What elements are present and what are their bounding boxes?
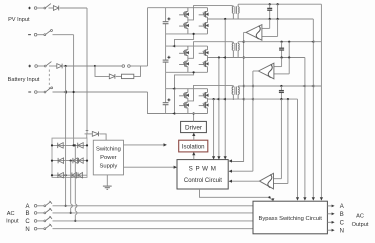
junction battery- / PV- bus xyxy=(73,91,75,93)
junction cap S3 top xyxy=(280,85,282,87)
arrow x cell3 bottom rail xyxy=(241,98,244,101)
sense lead cap2 to comparator xyxy=(281,58,283,67)
cap S3 lead xyxy=(280,86,282,90)
svg-text:A: A xyxy=(25,204,29,210)
junction battery+ / matrix bus xyxy=(65,65,67,67)
wire battery+ row xyxy=(63,65,95,67)
junction cap S2 top xyxy=(281,41,283,43)
arrow into SPWM left xyxy=(174,166,177,169)
arrow drive into cell3 rail xyxy=(172,87,175,90)
arrow bus C into bypass xyxy=(303,197,306,200)
transistor Q3 (cell1 upper-right) xyxy=(199,14,204,16)
comparator U6 (output sense) xyxy=(260,173,274,189)
drive link cell2 xyxy=(175,72,194,88)
wire bus battery+ to phase A xyxy=(65,66,67,206)
wire AC row B xyxy=(53,212,254,214)
transistor Q12 (cell3 lower-right) xyxy=(199,105,204,107)
arrow cell3 top rail at bus2 xyxy=(303,85,306,88)
cell2 top rail xyxy=(166,45,208,47)
transformer T1 xyxy=(232,7,233,13)
precharge diode D3 xyxy=(109,74,115,79)
arrow output A xyxy=(332,205,335,208)
svg-text:N: N xyxy=(25,227,29,233)
transistor Q8 (cell2 lower-right) xyxy=(199,63,204,65)
junction bus C on row C xyxy=(74,220,76,222)
output line A xyxy=(327,205,333,207)
cell2 right leg source stub xyxy=(207,68,209,73)
matrix row 1 diode D5 xyxy=(58,143,64,148)
arrow into SPWM corner xyxy=(229,159,232,162)
svg-text:N: N xyxy=(340,228,344,234)
junction cap S1 top xyxy=(269,3,271,5)
arrow output C xyxy=(332,221,335,224)
switch AC N xyxy=(34,227,37,230)
cell2 left leg midpoint xyxy=(187,56,189,60)
wire PV+ to bus xyxy=(60,7,87,9)
matrix row 3 diode D10 xyxy=(58,173,64,178)
wire PV- row xyxy=(53,34,74,36)
arrow cell3 top rail at bus3 xyxy=(311,85,314,88)
wire battery- down to stack return xyxy=(148,92,166,114)
matrix row 2 diode D7 xyxy=(58,158,64,163)
rail sense vertical 1 xyxy=(277,4,279,19)
svg-text:Supply: Supply xyxy=(100,164,118,170)
wire SPS to isolation xyxy=(124,144,165,146)
sense lead cap3 to comparator xyxy=(280,99,282,179)
junction PV- bus at row1 xyxy=(73,144,75,146)
cell2 DC cap C2 lead xyxy=(165,46,167,60)
capacitor C6 (cell3 filter) xyxy=(279,90,284,92)
terminal PV- with switch S2 xyxy=(34,33,37,36)
wire SPWM to isolation xyxy=(193,153,195,160)
cell2 left leg source stub xyxy=(187,68,189,73)
arrow cell1 feedback into SPWM xyxy=(224,156,227,159)
arrow x cell2 top rail xyxy=(241,40,244,43)
cell3 left leg source stub xyxy=(187,109,189,114)
sense lead rail1 to comparator xyxy=(277,19,279,36)
matrix row 1 wire xyxy=(52,144,87,146)
svg-text:S P W M: S P W M xyxy=(189,166,217,173)
arrow cell2 top rail end xyxy=(311,40,314,43)
capacitor C2 xyxy=(163,59,169,61)
capacitor C4 (cell1 filter) xyxy=(267,7,272,9)
comparator1 output vertical xyxy=(243,32,245,162)
cell3 bottom line xyxy=(208,98,298,100)
junction rail node3 xyxy=(287,98,289,100)
svg-text:C: C xyxy=(340,220,345,226)
cell1 left leg source stub xyxy=(187,29,189,34)
arrow output B xyxy=(332,212,335,215)
svg-text:Isolation: Isolation xyxy=(182,143,205,150)
cell1 top rail xyxy=(148,7,208,9)
arrow comparator2 into SPWM xyxy=(229,170,232,173)
switching power supply box xyxy=(93,140,123,175)
matrix row 2 diode D9 xyxy=(79,158,84,163)
arrow tap1 x cell3 line xyxy=(223,98,226,101)
cell1 right leg source stub xyxy=(207,29,209,34)
svg-text:C: C xyxy=(25,219,30,225)
capacitor C5 (cell2 filter) xyxy=(279,47,284,49)
arrow into isolation xyxy=(164,143,167,146)
cell2 left leg drain stub xyxy=(187,46,189,49)
cell1 DC cap C1 lead xyxy=(165,8,167,22)
diode D1 (PV+ blocking) xyxy=(49,7,54,9)
diode D2 (battery+) xyxy=(49,65,57,67)
arrow comparator3 into SPWM xyxy=(229,180,232,183)
svg-text:Switching: Switching xyxy=(96,147,121,153)
isolation box U2 xyxy=(179,140,208,152)
cell3 right leg midpoint xyxy=(207,99,209,101)
terminal Battery- with switch S4 xyxy=(35,91,38,94)
svg-text:AC: AC xyxy=(7,211,15,217)
bus neutral down xyxy=(297,99,299,197)
cap S2 lead xyxy=(281,42,283,48)
svg-text:Control Circuit: Control Circuit xyxy=(184,178,222,184)
matrix row 3 wire xyxy=(52,174,87,176)
wire AC row C xyxy=(53,220,254,222)
transformer T1 primary leads xyxy=(232,6,234,7)
switch linkage (dashed) xyxy=(48,70,50,90)
svg-text:Bypass Switching Circuit: Bypass Switching Circuit xyxy=(258,216,322,222)
junction row1 left xyxy=(51,144,53,146)
junction row2 left xyxy=(51,160,53,162)
wire isolation to driver xyxy=(193,134,195,141)
comparator U5 (cell2) xyxy=(258,63,274,79)
svg-text:Power: Power xyxy=(100,155,117,161)
wire SPS ground lead xyxy=(106,175,108,186)
rail sense vertical 2 xyxy=(288,42,290,58)
bus phase C down xyxy=(304,58,306,198)
cell3 right leg source stub xyxy=(207,109,209,114)
feedback line cell1 to SPWM xyxy=(224,19,226,159)
junction spwm-bypass bend xyxy=(268,196,270,198)
transformer T2 secondary leads xyxy=(237,42,239,44)
cell2 right leg midpoint xyxy=(207,56,209,60)
arrow x2 cell3 bottom rail xyxy=(251,98,254,101)
bus phase B down xyxy=(312,19,314,197)
node PV+ polarity mark xyxy=(28,7,31,9)
output line N xyxy=(327,229,333,231)
svg-text:Input: Input xyxy=(6,219,19,225)
wire bus row1 to phase C xyxy=(74,145,76,203)
diode matrix box xyxy=(52,138,87,177)
wire diode to resistor xyxy=(116,75,122,77)
junction cell1 feedback tap xyxy=(224,18,226,20)
spwm output to bypass xyxy=(200,189,273,200)
transistor Q4 (cell1 lower-right) xyxy=(199,25,204,27)
arrow drive into cell3 bottom rail xyxy=(172,112,175,115)
cell1 secondary top rail xyxy=(238,3,321,5)
cell2 right leg drain stub xyxy=(207,46,209,49)
precharge lower branch wire xyxy=(95,66,109,76)
arrow tap2 x cell3 line xyxy=(216,98,219,101)
arrow bus N into bypass xyxy=(296,197,299,200)
transformer T3 xyxy=(232,87,233,94)
arrow tap1 x cell2 line xyxy=(223,56,226,59)
arrow into driver bottom xyxy=(192,133,195,136)
cell2 midpoint link to transformer xyxy=(188,42,232,59)
matrix row 3 diode D12 xyxy=(78,173,83,178)
transformer T3 secondary leads xyxy=(237,86,239,87)
svg-text:AC: AC xyxy=(356,213,364,219)
bypass switching circuit box xyxy=(253,201,327,234)
cell3 right leg drain stub xyxy=(207,89,209,92)
arrow bus A into bypass xyxy=(320,197,323,200)
junction cell2 feedback tap xyxy=(218,56,220,58)
comparator2 output vertical xyxy=(252,71,254,171)
capacitor C1 xyxy=(163,21,169,23)
wire battery- row xyxy=(53,91,148,93)
cell2 cap plus mark xyxy=(167,56,170,58)
comparator1 output wire xyxy=(244,31,246,33)
drive link cell1 xyxy=(175,34,194,46)
resistor R1 (precharge) xyxy=(122,74,134,78)
node battery- polarity mark xyxy=(28,91,31,93)
node PV- polarity mark xyxy=(28,34,31,36)
arrow bus B into bypass xyxy=(312,197,315,200)
drive link cell3 xyxy=(174,89,176,114)
cell3 midpoint link to transformer xyxy=(188,85,232,101)
transistor Q5 (cell2 upper-left) xyxy=(179,52,184,54)
junction cap S1 bottom xyxy=(269,18,271,20)
output line C xyxy=(327,221,333,223)
arrow x cell3 top rail xyxy=(241,85,244,88)
arrow cell3 feedback into SPWM xyxy=(212,156,215,159)
ground symbol xyxy=(103,185,112,187)
comparator2 output wire xyxy=(253,70,259,72)
terminal Battery+ with switch S3 xyxy=(35,65,38,68)
cell1 right leg midpoint xyxy=(207,18,209,22)
cell1 bottom line xyxy=(208,18,314,20)
junction driver line on cell3 rail xyxy=(193,112,195,114)
junction cap S3 bottom xyxy=(280,98,282,100)
junction row3 mid xyxy=(65,174,67,176)
wire AC row A xyxy=(53,205,254,207)
cap S1 lead xyxy=(269,4,271,8)
cell1 bottom rail xyxy=(166,33,208,35)
matrix row 2 diode D8 xyxy=(73,158,78,163)
junction drive cell2 xyxy=(193,71,195,73)
wire driver to bridge xyxy=(193,114,195,122)
wire PV+ bus down xyxy=(86,8,88,134)
cell3 DC cap C3 lead xyxy=(165,89,167,103)
matrix row 2 wire xyxy=(52,160,87,162)
junction cap S2 bottom xyxy=(281,56,283,58)
output line B xyxy=(327,213,333,215)
wire PV+ bus to SPS diode xyxy=(87,133,92,135)
matrix row 3 diode D11 xyxy=(72,173,77,178)
matrix feed stub xyxy=(86,134,88,138)
junction rail node2 top xyxy=(288,41,290,43)
svg-text:PV Input: PV Input xyxy=(8,17,30,23)
junction cell3 feedback tap xyxy=(213,98,215,100)
cell1 left leg drain stub xyxy=(187,8,189,11)
precharge right wire xyxy=(134,66,141,76)
arrow spwm into bypass xyxy=(272,198,275,201)
arrow x2 cell3 top rail xyxy=(251,85,254,88)
transistor Q11 (cell3 upper-right) xyxy=(199,95,204,97)
wire to SPS top xyxy=(100,134,107,140)
transformer T2 xyxy=(232,44,233,51)
cell1 right leg drain stub xyxy=(207,8,209,11)
transistor Q1 (cell1 upper-left) xyxy=(179,14,184,16)
junction row3 left xyxy=(51,174,53,176)
wire PV- bus down xyxy=(73,35,75,146)
arrow drive into cell2 rail xyxy=(172,45,175,48)
transistor Q10 (cell3 lower-left) xyxy=(179,105,184,107)
junction drive cell1 xyxy=(193,33,195,35)
cell3 cap plus mark xyxy=(167,99,170,101)
switch AC B xyxy=(34,212,37,215)
cell2 secondary top rail xyxy=(238,41,321,43)
arrow output N xyxy=(332,229,335,232)
arrow into isolation bottom xyxy=(192,152,195,155)
series link cell2-cell3 xyxy=(165,72,167,88)
junction row1 right xyxy=(86,144,88,146)
precharge bypass contactor K1 xyxy=(122,65,125,68)
comparator2 to SPWM xyxy=(230,170,253,172)
transistor Q2 (cell1 lower-left) xyxy=(179,25,184,27)
feedback line cell2 to SPWM xyxy=(218,58,220,159)
spwm box U3 xyxy=(177,160,228,189)
terminal PV+ with breaker switch S1 xyxy=(34,7,37,10)
arrow x cell2 bottom rail xyxy=(241,56,244,59)
wire bus row2 to phase B xyxy=(70,161,72,204)
cell3 bottom rail xyxy=(166,113,208,115)
transformer T1 secondary leads xyxy=(237,4,239,7)
wire AC row N xyxy=(53,228,254,230)
junction bus A on row A xyxy=(65,205,67,207)
cell2 bottom rail xyxy=(166,71,208,73)
cell3 left leg midpoint xyxy=(187,99,189,101)
comparator U4 (cell1) xyxy=(246,25,262,41)
transistor Q7 (cell2 upper-right) xyxy=(199,52,204,54)
bus phase A down xyxy=(320,4,322,197)
arrow cell2 feedback into SPWM xyxy=(217,156,220,159)
comparator3 output wire xyxy=(230,180,260,182)
svg-text:B: B xyxy=(25,211,29,217)
transistor Q6 (cell2 lower-left) xyxy=(179,63,184,65)
cell3 secondary top rail xyxy=(238,85,321,87)
junction rail node2 xyxy=(288,56,290,58)
junction rail node1 xyxy=(277,18,279,20)
comparator1 to SPWM corner xyxy=(230,160,243,163)
svg-text:B: B xyxy=(340,212,344,218)
sense lead rail3 to comparator xyxy=(287,99,289,183)
feedback line cell3 to SPWM xyxy=(213,99,215,159)
junction row2 right xyxy=(86,160,88,162)
cell1 midpoint link to transformer xyxy=(188,6,232,20)
node battery+ polarity mark xyxy=(28,65,31,67)
cell3 left leg drain stub xyxy=(187,89,189,92)
switch AC A xyxy=(34,205,37,208)
svg-text:Battery Input: Battery Input xyxy=(8,77,40,83)
svg-text:Output: Output xyxy=(352,222,369,228)
junction row2 mid xyxy=(70,160,72,162)
transformer T3 primary leads xyxy=(232,85,234,87)
wire battery+ to DC stack xyxy=(141,65,148,67)
series link cell1-cell2 xyxy=(165,34,167,46)
transistor Q9 (cell3 upper-left) xyxy=(179,95,184,97)
wire SPS to SPWM xyxy=(124,166,176,168)
sense lead cap1 to comparator xyxy=(269,19,271,28)
cell3 top rail xyxy=(166,88,208,90)
svg-text:A: A xyxy=(340,204,344,210)
wire DC feed riser xyxy=(147,8,149,66)
svg-text:Driver: Driver xyxy=(185,124,203,131)
precharge junction left xyxy=(94,65,96,67)
capacitor C3 xyxy=(163,102,169,104)
junction bus B on row B xyxy=(70,212,72,214)
diode D4 (SPS feed) xyxy=(92,132,98,137)
driver box U1 xyxy=(181,121,207,132)
cell1 cap plus mark xyxy=(167,18,170,20)
switch AC C xyxy=(34,220,37,223)
junction row1 mid xyxy=(74,144,76,146)
arrow into battery- bus xyxy=(64,90,67,93)
sense lead rail2 to comparator xyxy=(288,58,290,74)
cell2 bottom line xyxy=(208,57,305,59)
transformer T2 primary leads xyxy=(232,42,234,44)
matrix row 1 diode D6 xyxy=(78,143,84,148)
junction rail node1 top xyxy=(277,3,279,5)
cell1 left leg midpoint xyxy=(187,18,189,22)
